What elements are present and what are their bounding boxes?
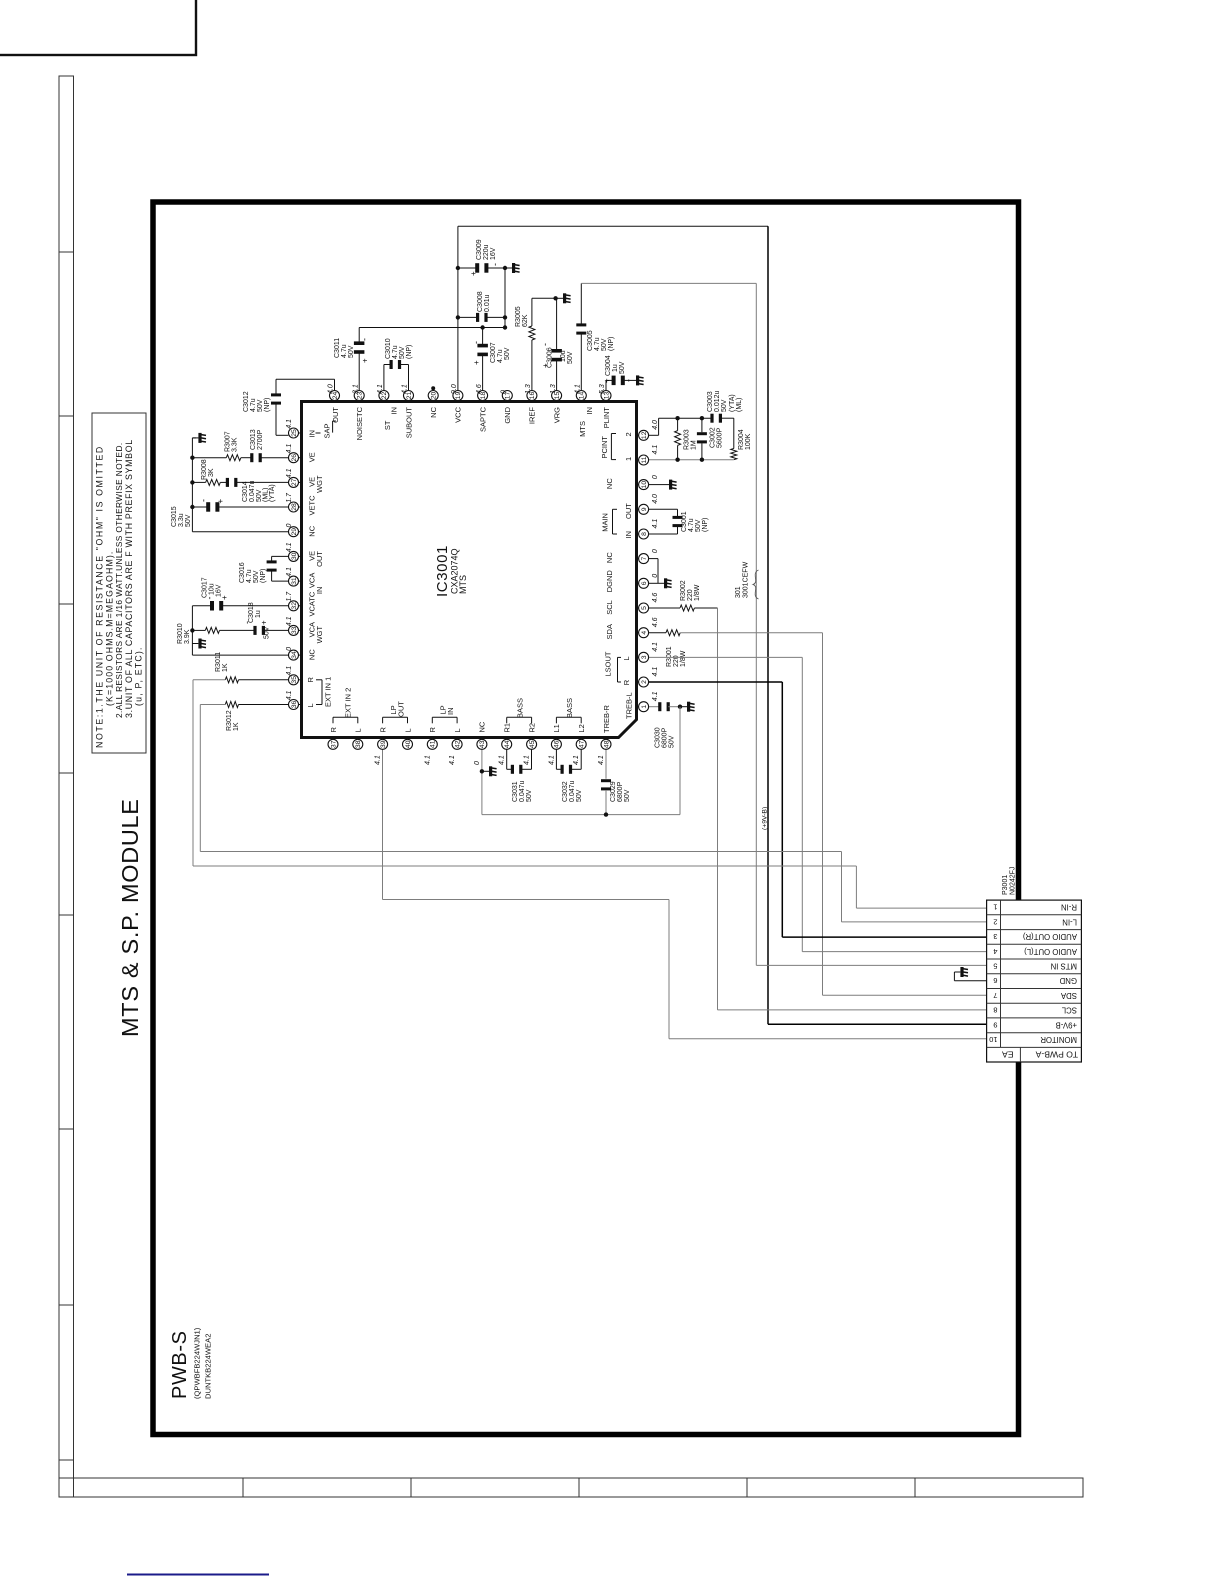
svg-text:IREF: IREF [528, 407, 537, 425]
svg-text:8: 8 [993, 1006, 997, 1015]
wire PCINT1 net from pin 11 [649, 459, 734, 461]
pin 8 [637, 519, 660, 539]
pin 42 [449, 728, 462, 765]
svg-text:4.6: 4.6 [476, 384, 483, 394]
svg-text:R2: R2 [527, 723, 536, 733]
svg-text:0.012u: 0.012u [714, 390, 721, 412]
wire VCA WGT net pin 33 [265, 629, 289, 631]
svg-text:L: L [453, 728, 462, 732]
junction VRG node [553, 296, 557, 300]
svg-text:+: + [469, 271, 478, 276]
wire C3009 node down [504, 268, 506, 328]
wire NOISETC net [358, 351, 360, 391]
capacitor C3001 between MAIN OUT and MAIN IN [649, 508, 678, 510]
left bias bus lower [191, 606, 193, 655]
svg-text:NOTE:1.THE UNIT OF RESISTANCE: NOTE:1.THE UNIT OF RESISTANCE "OHM" IS O… [95, 445, 105, 748]
svg-text:26: 26 [291, 454, 298, 462]
svg-text:SCL: SCL [605, 600, 614, 615]
svg-text:3001CEFW: 3001CEFW [743, 561, 750, 598]
pin 41 [424, 727, 437, 766]
svg-text:-: - [540, 343, 550, 346]
svg-text:41: 41 [430, 740, 437, 748]
svg-text:50V: 50V [399, 346, 406, 359]
svg-text:NC: NC [605, 478, 614, 489]
svg-text:R1: R1 [503, 723, 512, 733]
svg-text:R3002: R3002 [680, 580, 687, 601]
svg-text:7: 7 [641, 556, 648, 560]
pin 18 [476, 384, 488, 432]
resistor R3011 on EXT IN 1 R [239, 679, 289, 681]
svg-text:P3001: P3001 [1002, 875, 1009, 895]
svg-text:4.1: 4.1 [652, 667, 659, 677]
capacitor C3029 on TREB-R [605, 750, 607, 779]
svg-text:10u: 10u [209, 583, 216, 595]
svg-text:MONITOR: MONITOR [1040, 1035, 1077, 1044]
svg-text:VETC: VETC [308, 495, 317, 516]
svg-text:(NP): (NP) [702, 518, 709, 532]
svg-text:GND: GND [503, 406, 512, 423]
svg-text:10: 10 [989, 1035, 997, 1044]
svg-text:PLINT: PLINT [602, 407, 611, 429]
svg-text:3.3u: 3.3u [178, 513, 185, 527]
svg-text:L2: L2 [577, 724, 586, 732]
svg-text:LSOUT: LSOUT [604, 651, 613, 676]
left bias bus upper [191, 438, 193, 532]
svg-text:VCATC: VCATC [308, 591, 317, 616]
pin 48 [598, 738, 611, 766]
svg-text:4.7u: 4.7u [250, 398, 257, 412]
svg-text:-: - [490, 263, 500, 266]
pin 13 [599, 384, 611, 428]
svg-text:4.1: 4.1 [449, 755, 456, 765]
pin 47 [573, 724, 586, 765]
svg-text:PCINT: PCINT [600, 436, 609, 459]
pin 39 [375, 727, 388, 766]
svg-text:3: 3 [641, 655, 648, 659]
wire PCINT2 net from pin 12 [649, 434, 659, 436]
svg-text:1.7: 1.7 [286, 492, 293, 503]
svg-text:0: 0 [474, 761, 481, 765]
svg-text:4.7u: 4.7u [688, 518, 695, 532]
svg-text:0: 0 [501, 390, 508, 394]
svg-text:10u: 10u [560, 350, 567, 362]
bottom scale band [59, 1478, 1083, 1497]
svg-text:R3004: R3004 [738, 429, 745, 450]
svg-text:44: 44 [504, 740, 511, 748]
pin 12 [637, 420, 660, 440]
svg-text:SAP: SAP [323, 423, 332, 438]
svg-text:50V: 50V [253, 570, 260, 583]
svg-text:SDA: SDA [605, 624, 614, 639]
pin 7 [605, 549, 659, 564]
svg-text:4.1: 4.1 [575, 384, 582, 394]
svg-text:50V: 50V [695, 519, 702, 532]
svg-text:(NP): (NP) [260, 569, 267, 583]
svg-text:9.0: 9.0 [451, 384, 458, 394]
svg-text:0.01u: 0.01u [484, 294, 491, 312]
svg-text:45: 45 [529, 740, 536, 748]
sheet corner box top-left [0, 0, 196, 55]
svg-text:48: 48 [603, 740, 610, 748]
svg-text:IN: IN [390, 407, 399, 415]
svg-text:50V: 50V [257, 399, 264, 412]
svg-text:C3015: C3015 [171, 506, 178, 527]
capacitor C3010 between ST IN and SUBOUT [383, 365, 385, 391]
svg-text:L1: L1 [552, 724, 561, 732]
svg-text:MTS IN: MTS IN [1051, 961, 1077, 970]
svg-text:1/8W: 1/8W [680, 650, 687, 667]
svg-text:42: 42 [454, 740, 461, 748]
wire ground bus below IC [482, 814, 680, 816]
svg-text:28: 28 [291, 503, 298, 511]
ground near C3004 [630, 379, 636, 381]
junction C3029 ground bus [604, 812, 608, 816]
svg-text:C3006: C3006 [547, 347, 554, 368]
svg-text:R3001: R3001 [666, 646, 673, 667]
svg-text:+: + [216, 499, 225, 504]
capacitor C3011 [354, 341, 365, 345]
wire VE net pin 26 [261, 457, 288, 459]
svg-text:6800P: 6800P [617, 781, 624, 802]
junction VCC C3009 [456, 266, 460, 270]
svg-text:33: 33 [291, 626, 298, 634]
resistor R3002 on SCL [649, 607, 680, 609]
pin 10 [605, 475, 659, 490]
wire TREB-L node to ground bus [679, 707, 681, 815]
svg-text:0: 0 [652, 549, 659, 553]
svg-text:36: 36 [291, 701, 298, 709]
svg-text:(NP): (NP) [264, 398, 271, 412]
svg-text:C3016: C3016 [239, 562, 246, 583]
svg-text:C3029: C3029 [610, 781, 617, 802]
svg-text:C3031: C3031 [512, 781, 519, 802]
pin 3 [637, 642, 660, 662]
svg-text:SCL: SCL [1061, 1006, 1077, 1015]
capacitor C3031 between R1 R2 [506, 750, 508, 770]
svg-text:-: - [471, 341, 481, 344]
wire SDA to connector pin 7 [822, 633, 824, 996]
svg-text:-: - [199, 499, 209, 502]
svg-text:(NP): (NP) [406, 345, 413, 359]
svg-text:50V: 50V [526, 789, 533, 802]
pin 16 [525, 384, 537, 424]
resistor R3001 on SDA [649, 632, 666, 634]
pin 24 [328, 384, 340, 401]
svg-text:BASS: BASS [515, 698, 524, 718]
svg-text:R: R [378, 727, 387, 733]
svg-text:C3001: C3001 [681, 511, 688, 532]
svg-text:4.6: 4.6 [652, 617, 659, 627]
svg-text:VCC: VCC [454, 406, 463, 422]
svg-text:4.1: 4.1 [424, 755, 431, 765]
svg-text:R3007: R3007 [225, 431, 232, 452]
svg-text:EXT IN 2: EXT IN 2 [343, 688, 352, 718]
pin 2 [637, 667, 660, 687]
svg-text:0: 0 [652, 574, 659, 578]
svg-text:4.1: 4.1 [286, 666, 293, 676]
svg-text:0.047u: 0.047u [249, 480, 256, 502]
svg-text:4.7u: 4.7u [497, 349, 504, 363]
svg-text:MTS & S.P. MODULE: MTS & S.P. MODULE [117, 798, 143, 1037]
svg-text:50V: 50V [504, 347, 511, 360]
svg-text:IN: IN [446, 708, 455, 716]
svg-text:NC: NC [308, 525, 317, 536]
ground at DGND [658, 582, 664, 584]
svg-text:9: 9 [993, 1020, 997, 1029]
svg-text:(NP): (NP) [608, 337, 615, 351]
svg-text:0: 0 [286, 524, 293, 528]
svg-text:39: 39 [380, 740, 387, 748]
svg-text:4.0: 4.0 [652, 494, 659, 504]
pin 4 [605, 617, 659, 639]
label BASS bracket R [507, 716, 532, 718]
svg-text:4.7u: 4.7u [246, 569, 253, 583]
wire +9V-B vertical rail [767, 226, 769, 1024]
svg-text:5: 5 [641, 606, 648, 610]
svg-text:R3003: R3003 [684, 429, 691, 450]
svg-text:MAIN: MAIN [601, 513, 610, 532]
svg-text:-: - [360, 338, 370, 341]
blue revision mark [127, 1574, 269, 1576]
svg-text:0.047u: 0.047u [569, 780, 576, 802]
svg-text:NOISETC: NOISETC [355, 406, 364, 440]
svg-text:IN: IN [624, 531, 633, 539]
svg-text:PWB-S: PWB-S [169, 1330, 191, 1399]
capacitor C3017 on VCATC [222, 605, 288, 607]
svg-text:NC: NC [478, 721, 487, 732]
svg-text:1M: 1M [691, 440, 698, 450]
wire VE WGT net pin 27 [237, 481, 288, 483]
svg-text:50V: 50V [576, 789, 583, 802]
ground at pin 43 [483, 770, 489, 772]
ground near R3005 [557, 297, 563, 299]
svg-text:29: 29 [291, 528, 298, 536]
svg-text:50V: 50V [567, 351, 574, 364]
svg-text:27: 27 [291, 478, 298, 486]
svg-text:3: 3 [993, 932, 997, 941]
pin 37 [328, 727, 338, 750]
svg-text:7: 7 [993, 991, 997, 1000]
pin 19 [451, 384, 463, 423]
svg-text:4.0: 4.0 [328, 384, 335, 394]
junction mark at pin 20 [431, 386, 435, 390]
svg-text:OUT: OUT [331, 407, 340, 423]
svg-text:BASS: BASS [565, 698, 574, 718]
svg-text:43: 43 [479, 740, 486, 748]
svg-text:R3010: R3010 [177, 623, 184, 644]
wire +9V-B to connector pin 9 [768, 1023, 987, 1025]
svg-text:3K: 3K [208, 468, 215, 477]
pin 33 [286, 616, 324, 643]
wire pin7 pin6 DGND [649, 558, 658, 560]
svg-text:1K: 1K [233, 722, 240, 731]
svg-text:47: 47 [579, 740, 586, 748]
svg-text:50V: 50V [624, 789, 631, 802]
wire R-IN run to connector pin 1 [192, 680, 194, 866]
svg-text:TO PWB-A: TO PWB-A [1035, 1050, 1078, 1060]
capacitor C3009 [458, 267, 478, 269]
svg-text:VE: VE [308, 452, 317, 462]
svg-text:R: R [329, 727, 338, 733]
svg-text:R3005: R3005 [515, 306, 522, 327]
pin 6 [605, 570, 659, 593]
svg-text:46: 46 [554, 740, 561, 748]
svg-text:5: 5 [993, 961, 997, 970]
op-amp IC3001 body [302, 402, 637, 738]
svg-text:C3018: C3018 [248, 602, 255, 623]
svg-text:C3009: C3009 [476, 239, 483, 260]
svg-text:DUNTKB224WEA2: DUNTKB224WEA2 [204, 1334, 213, 1399]
resistor R3005 on IREF [531, 340, 533, 390]
capacitor C3006 on VRG [556, 358, 558, 390]
svg-text:4.7u: 4.7u [594, 337, 601, 351]
wire bus to pin 34 [192, 654, 288, 656]
svg-text:OUT: OUT [315, 551, 324, 567]
left ruler strip [59, 76, 74, 1497]
svg-text:1u: 1u [255, 610, 262, 618]
svg-text:4.1: 4.1 [286, 468, 293, 478]
svg-text:MTS: MTS [458, 575, 468, 594]
svg-text:C3013: C3013 [250, 429, 257, 450]
svg-text:4.1: 4.1 [286, 542, 293, 552]
svg-text:301: 301 [735, 586, 742, 598]
capacitor C3005 on MTS IN [580, 332, 582, 390]
svg-text:ST: ST [383, 420, 392, 430]
svg-text:10: 10 [641, 481, 648, 489]
wire AUDIO OUT(R) from pin 2 [649, 681, 783, 683]
svg-text:35: 35 [291, 676, 298, 684]
svg-text:50V: 50V [348, 345, 355, 358]
svg-text:1: 1 [641, 705, 648, 709]
svg-text:4.1: 4.1 [499, 755, 506, 765]
label BASS bracket L [556, 716, 581, 718]
svg-text:3.1: 3.1 [352, 384, 359, 394]
svg-text:20: 20 [431, 392, 438, 400]
svg-text:50V: 50V [601, 338, 608, 351]
svg-text:R3008: R3008 [201, 459, 208, 480]
svg-text:1.7: 1.7 [286, 591, 293, 602]
svg-text:MTS: MTS [578, 421, 587, 437]
junction pin43 ground [480, 769, 484, 773]
svg-text:C3005: C3005 [587, 330, 594, 351]
svg-text:16V: 16V [216, 584, 223, 597]
svg-text:4.1: 4.1 [286, 419, 293, 429]
pin 45 [524, 723, 537, 765]
resistor R3003 [677, 418, 679, 430]
svg-text:R: R [306, 677, 315, 683]
svg-text:37: 37 [330, 740, 337, 748]
ground at pin 10 [649, 484, 663, 486]
svg-text:5600P: 5600P [717, 427, 724, 448]
svg-text:4.1: 4.1 [375, 755, 382, 765]
svg-text:OUT: OUT [397, 701, 406, 717]
svg-text:25: 25 [291, 429, 298, 437]
svg-text:IN: IN [585, 407, 594, 415]
svg-text:4.1: 4.1 [573, 755, 580, 765]
svg-text:220u: 220u [483, 244, 490, 260]
svg-text:(YTA): (YTA) [269, 484, 276, 502]
svg-text:62K: 62K [522, 314, 529, 327]
svg-text:4.1: 4.1 [286, 567, 293, 577]
svg-text:L: L [622, 656, 631, 660]
svg-text:1u: 1u [612, 364, 619, 372]
capacitor C3015 on VETC [218, 506, 288, 508]
svg-text:4.1: 4.1 [286, 690, 293, 700]
svg-text:NC: NC [605, 552, 614, 563]
svg-text:2: 2 [993, 917, 997, 926]
svg-text:C3030: C3030 [655, 727, 662, 748]
svg-text:4.7u: 4.7u [341, 344, 348, 358]
svg-text:1K: 1K [222, 663, 229, 672]
svg-text:4.1: 4.1 [652, 691, 659, 701]
pin 15 [550, 384, 562, 423]
svg-text:EA: EA [1002, 1050, 1014, 1060]
svg-text:EXT IN 1: EXT IN 1 [324, 677, 333, 707]
pin 40 [403, 728, 413, 749]
svg-text:40: 40 [405, 740, 412, 748]
label EXT IN 2 bracket [333, 716, 358, 718]
svg-text:0: 0 [286, 647, 293, 651]
ground near C3030 [681, 706, 687, 708]
pin 21 [402, 384, 414, 438]
svg-text:WGT: WGT [315, 625, 324, 643]
svg-text:AUDIO OUT(L): AUDIO OUT(L) [1024, 947, 1077, 956]
capacitor C3030 on TREB-L [649, 706, 660, 708]
svg-text:5.3: 5.3 [599, 384, 606, 394]
svg-text:2700P: 2700P [257, 429, 264, 450]
capacitor C3004 on PLINT [605, 380, 607, 390]
svg-text:0.047u: 0.047u [519, 780, 526, 802]
svg-text:50V: 50V [669, 735, 676, 748]
svg-text:SUBOUT: SUBOUT [404, 407, 413, 439]
capacitor C3032 between L1 L2 [555, 750, 557, 770]
svg-text:C3012: C3012 [243, 391, 250, 412]
svg-text:TREB-L: TREB-L [625, 692, 634, 719]
svg-text:4.6: 4.6 [652, 593, 659, 603]
svg-text:L: L [306, 703, 315, 707]
svg-text:L: L [403, 728, 412, 732]
pin 35 [286, 666, 302, 685]
svg-text:NC: NC [429, 406, 438, 417]
svg-text:50V: 50V [619, 361, 626, 374]
pin 29 [286, 524, 317, 537]
svg-text:VRG: VRG [552, 407, 561, 423]
junction VCC C3008 [456, 315, 460, 319]
svg-text:L-IN: L-IN [1062, 917, 1077, 926]
pin 34 [286, 647, 317, 660]
svg-text:30: 30 [291, 552, 298, 560]
pin 17 [501, 390, 513, 424]
svg-text:+: + [603, 378, 612, 383]
svg-text:6: 6 [641, 581, 648, 585]
main schematic border [153, 202, 1019, 1435]
svg-text:6800P: 6800P [662, 727, 669, 748]
svg-text:4.1: 4.1 [402, 384, 409, 394]
svg-text:+: + [260, 620, 269, 625]
svg-text:4.7u: 4.7u [392, 345, 399, 359]
svg-text:6: 6 [993, 976, 997, 985]
svg-text:16V: 16V [490, 247, 497, 260]
pin 5 [605, 593, 659, 615]
svg-text:50V: 50V [721, 399, 728, 412]
svg-text:2: 2 [624, 432, 633, 436]
svg-text:GND: GND [1059, 976, 1077, 985]
pin 20 [428, 391, 438, 418]
svg-text:SDA: SDA [1060, 991, 1077, 1000]
svg-text:(QPWBFB224WJN1): (QPWBFB224WJN1) [193, 1327, 202, 1399]
svg-text:L: L [354, 728, 363, 732]
label LP OUT bracket [383, 716, 408, 718]
